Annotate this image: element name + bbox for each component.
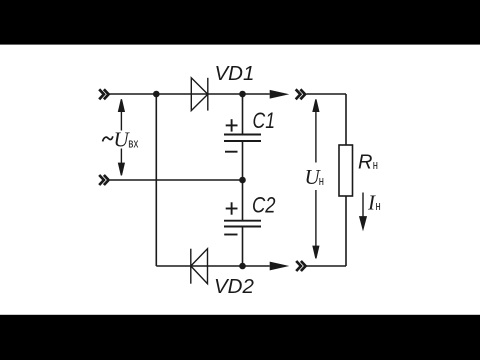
svg-text:н: н xyxy=(319,173,324,188)
svg-text:н: н xyxy=(376,198,381,213)
svg-text:вх: вх xyxy=(128,136,138,151)
svg-text:VD2: VD2 xyxy=(214,275,254,298)
svg-text:R: R xyxy=(358,151,372,173)
svg-text:н: н xyxy=(373,157,378,172)
svg-text:C2: C2 xyxy=(252,193,276,218)
svg-text:VD1: VD1 xyxy=(215,62,255,85)
svg-text:C1: C1 xyxy=(253,108,276,133)
